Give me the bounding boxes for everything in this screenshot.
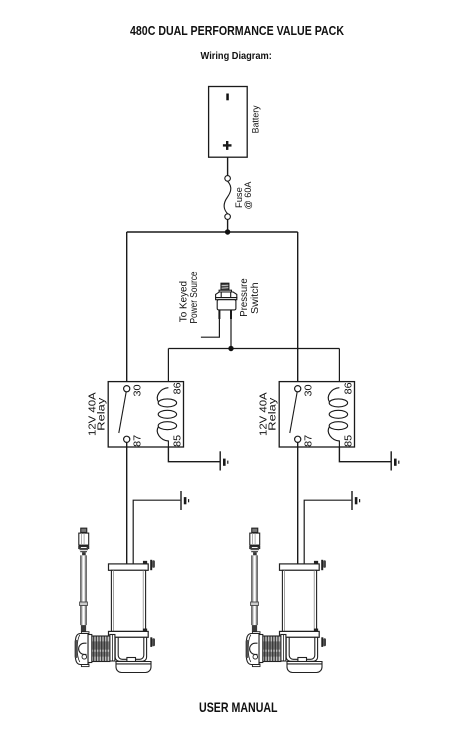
fuse F1 <box>224 176 231 220</box>
ground G1 <box>220 451 228 470</box>
svg-text:Wiring Diagram:: Wiring Diagram: <box>201 50 272 62</box>
svg-text:30: 30 <box>304 384 315 396</box>
compressor 2 <box>246 528 326 673</box>
ground G3 <box>181 491 189 510</box>
svg-text:86: 86 <box>173 382 184 394</box>
pressure switch labels <box>179 271 261 324</box>
ground G2 <box>391 451 399 470</box>
wire to keyed power source <box>201 319 220 337</box>
svg-text:85: 85 <box>173 435 184 447</box>
wire left drop to relay 1 pin 30 <box>126 232 128 386</box>
battery positive terminal mark <box>223 144 232 146</box>
relay K1 contact arm <box>119 392 126 433</box>
svg-text:Relay: Relay <box>268 397 279 431</box>
svg-text:87: 87 <box>133 435 144 447</box>
relay K1 pin labels <box>133 382 184 447</box>
relay K1 pin 30 terminal <box>124 386 130 392</box>
svg-text:Switch: Switch <box>250 282 261 314</box>
relay K2 pin 87 terminal <box>295 436 301 442</box>
relay K1 coil <box>157 388 176 447</box>
relay K1 label <box>87 392 107 436</box>
wire compressor 2 to ground <box>304 500 351 564</box>
relay K2 label <box>258 392 278 436</box>
wire compressor 1 to ground <box>133 500 180 564</box>
svg-text:86: 86 <box>344 382 355 394</box>
wire relay 1 pin 85 to ground <box>168 447 219 462</box>
svg-text:87: 87 <box>304 435 315 447</box>
svg-text:480C DUAL PERFORMANCE VALUE PA: 480C DUAL PERFORMANCE VALUE PACK <box>130 23 344 38</box>
relay K1 pin 87 terminal <box>124 436 130 442</box>
wire coil bus to relay 1 pin 86 <box>167 349 169 388</box>
relay K2 pin labels <box>304 382 355 447</box>
relay K2 coil <box>328 388 347 447</box>
wire battery to fuse <box>227 157 229 175</box>
relay K1 case <box>108 382 183 447</box>
compressor 1 <box>75 528 155 673</box>
svg-text:85: 85 <box>344 435 355 447</box>
svg-text:To Keyed: To Keyed <box>179 281 190 322</box>
wire fuse to bus <box>227 219 229 232</box>
battery B1 <box>209 87 248 158</box>
svg-text:Power Source: Power Source <box>189 271 200 324</box>
junction top bus <box>225 229 230 234</box>
ground G4 <box>352 491 360 510</box>
wire right drop to relay 2 pin 30 <box>297 232 299 386</box>
wire pressure switch to coil bus <box>230 319 232 349</box>
battery case <box>209 87 248 158</box>
wire coil bus <box>168 348 339 350</box>
wire top bus <box>127 231 298 233</box>
relay K2 contact arm <box>290 392 297 433</box>
relay K2 pin 30 terminal <box>295 386 301 392</box>
svg-text:Relay: Relay <box>97 397 108 431</box>
wire relay 1 pin 87 to compressor 1 <box>126 442 128 564</box>
relay K2 case <box>279 382 354 447</box>
svg-text:USER MANUAL: USER MANUAL <box>199 700 278 715</box>
junction coil bus <box>228 346 233 351</box>
svg-text:30: 30 <box>133 384 144 396</box>
relay K1 <box>108 382 183 447</box>
wire relay 2 pin 87 to compressor 2 <box>297 442 299 564</box>
wire coil bus to relay 2 pin 86 <box>338 349 340 388</box>
svg-text:Pressure: Pressure <box>239 278 250 317</box>
svg-text:Battery: Battery <box>250 105 260 133</box>
fuse label <box>234 182 253 210</box>
battery negative terminal mark <box>226 94 229 101</box>
svg-text:@ 60A: @ 60A <box>243 182 253 210</box>
pressure switch PS1 <box>216 283 237 319</box>
wire relay 2 pin 85 to ground <box>339 447 390 462</box>
relay K2 <box>279 382 354 447</box>
